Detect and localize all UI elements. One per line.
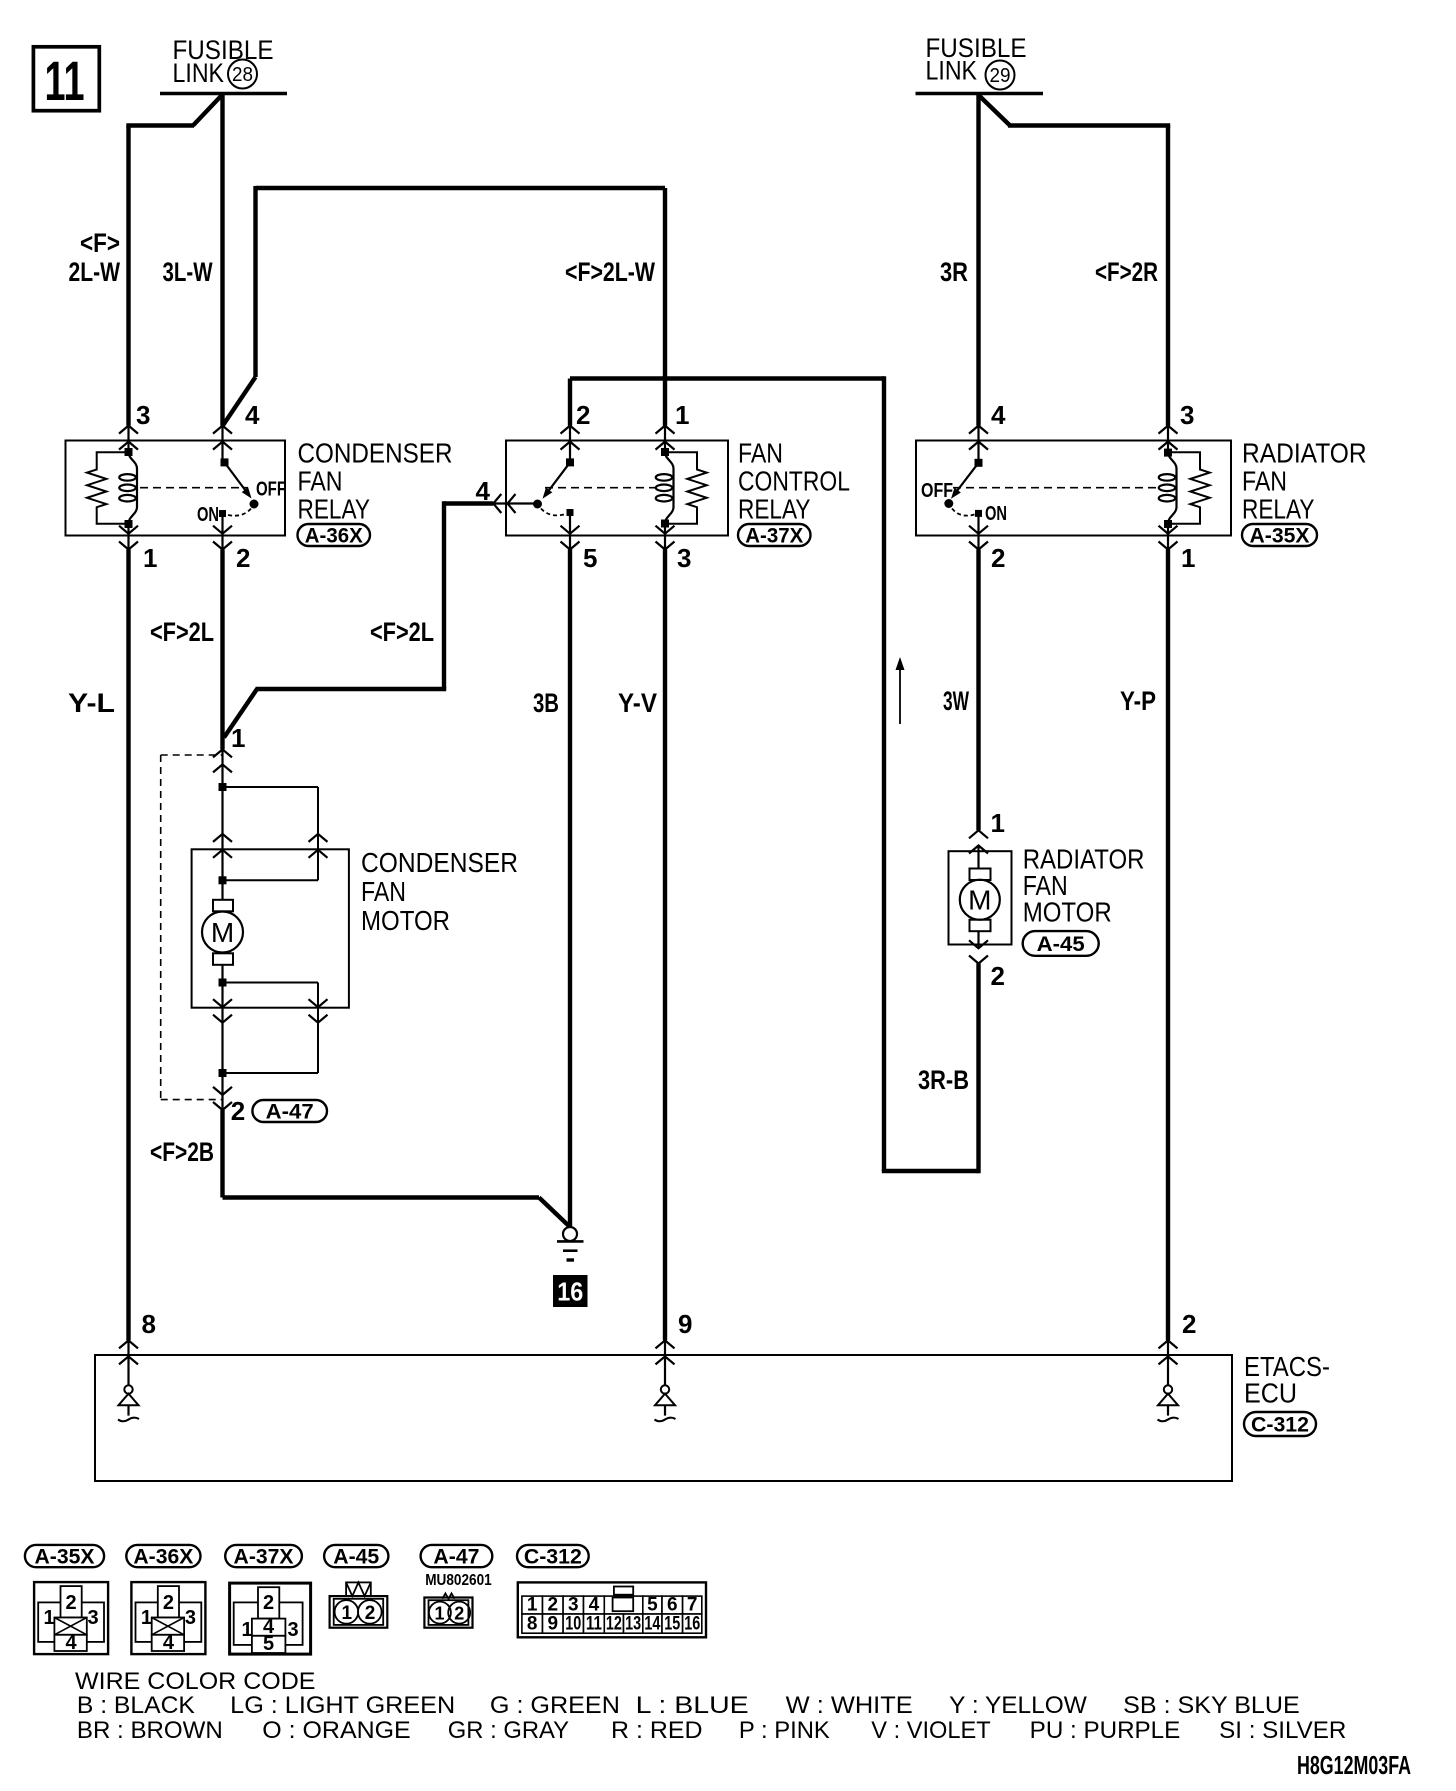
svg-text:<F>2L: <F>2L (150, 617, 214, 647)
svg-text:3: 3 (1180, 400, 1194, 430)
svg-text:2: 2 (1182, 1309, 1196, 1339)
A-35X pin numbers (991, 400, 1195, 573)
svg-text:8: 8 (527, 1614, 538, 1635)
svg-text:13: 13 (625, 1614, 641, 1635)
condenser motor bottom parallel branch (219, 979, 319, 1078)
svg-text:GR : GRAY: GR : GRAY (448, 1717, 569, 1744)
legend ref A-37X (225, 1545, 302, 1567)
ETACS pin 2 connector (1159, 1340, 1178, 1385)
svg-text:R : RED: R : RED (611, 1717, 703, 1744)
svg-text:OFF: OFF (921, 480, 953, 502)
A-35X pin 4 connector (969, 426, 988, 463)
svg-text:1: 1 (143, 543, 157, 573)
A-35X pin 1 connector (1159, 524, 1178, 550)
svg-text:B : BLACK: B : BLACK (77, 1692, 195, 1719)
svg-text:A-36X: A-36X (133, 1546, 193, 1569)
A-37X pin 3 connector (656, 524, 675, 550)
svg-text:A-45: A-45 (333, 1546, 379, 1569)
svg-text:SI : SILVER: SI : SILVER (1219, 1717, 1346, 1744)
svg-text:4: 4 (476, 476, 491, 506)
svg-text:Y-L: Y-L (68, 688, 115, 718)
A-37X pin 2 connector (561, 426, 580, 463)
svg-text:4: 4 (163, 1632, 175, 1654)
connector ref C-312 (1244, 1412, 1316, 1436)
svg-text:FAN: FAN (738, 438, 783, 469)
svg-text:RELAY: RELAY (1242, 494, 1315, 525)
svg-text:9: 9 (548, 1614, 559, 1635)
wire <F>2L-W: A-36X pin 4 to A-37X pin 1 via top run (223, 186, 666, 426)
svg-text:9: 9 (678, 1309, 692, 1339)
legend ref A-45 (324, 1545, 388, 1567)
legend connector diagram A-37X (230, 1583, 311, 1655)
svg-text:O : ORANGE: O : ORANGE (262, 1717, 410, 1744)
svg-text:1: 1 (991, 808, 1005, 838)
fusible link 29 label (926, 33, 1027, 90)
wire color code row 1 (77, 1692, 1300, 1719)
svg-text:A-47: A-47 (433, 1546, 479, 1569)
condenser motor box exit chevrons (213, 999, 328, 1023)
svg-text:1: 1 (141, 1607, 152, 1629)
ETACS pin 9 connector (656, 1340, 675, 1385)
legend connector diagram A-45 (330, 1582, 388, 1627)
A-37X dashed actuation line (545, 487, 655, 489)
svg-text:3: 3 (677, 543, 691, 573)
condenser motor top parallel branch (219, 783, 319, 884)
A-35X pin 3 connector (1159, 426, 1178, 453)
wire 3W: A-35X pin 2 down to radiator motor pin 1 (976, 550, 980, 831)
A-47 pin 2 connector (213, 1073, 232, 1110)
condenser motor box (192, 849, 349, 1007)
svg-text:11: 11 (45, 49, 85, 112)
A-35X pin 2 connector (969, 516, 988, 550)
A-37X resistor (665, 452, 707, 524)
legend connector diagram A-36X (131, 1582, 205, 1654)
wire label <F> 2L-W (69, 228, 121, 287)
A-36X switch (221, 458, 259, 508)
svg-text:P : PINK: P : PINK (739, 1717, 830, 1744)
wire color code row 2 (77, 1717, 1346, 1744)
svg-text:Y : YELLOW: Y : YELLOW (949, 1692, 1087, 1719)
wire <F>2R: fusible link 29 jog to A-35X pin 3 (980, 96, 1171, 426)
svg-text:WIRE COLOR CODE: WIRE COLOR CODE (75, 1668, 316, 1695)
svg-text:C-312: C-312 (1251, 1414, 1309, 1437)
svg-text:FAN: FAN (1242, 466, 1287, 497)
svg-text:FAN: FAN (298, 466, 343, 497)
A-37X ON contact (541, 509, 574, 517)
svg-text:BR : BROWN: BR : BROWN (77, 1717, 223, 1744)
svg-text:3R: 3R (940, 257, 968, 287)
svg-text:1: 1 (1181, 543, 1195, 573)
radiator motor symbol M (960, 869, 1000, 949)
svg-text:2: 2 (231, 1096, 245, 1126)
label RADIATOR FAN RELAY (1242, 438, 1367, 525)
svg-text:V : VIOLET: V : VIOLET (871, 1717, 991, 1744)
svg-text:MOTOR: MOTOR (1023, 897, 1112, 928)
svg-text:28: 28 (232, 64, 253, 86)
page number box 11 (33, 47, 99, 112)
svg-text:RADIATOR: RADIATOR (1242, 438, 1367, 469)
svg-text:A-47: A-47 (266, 1101, 314, 1124)
A-35X coil junction dots (1164, 449, 1172, 457)
svg-text:1: 1 (675, 400, 689, 430)
svg-text:3: 3 (88, 1607, 99, 1629)
wire <F>2L: A-36X pin 2 down to condenser fan motor pin 1 (220, 550, 224, 750)
condenser motor box entry chevrons (213, 834, 328, 858)
wire: A-37X pin 2 up and over to radiator motor return (570, 376, 979, 1171)
A-36X coil junction dots (125, 448, 133, 456)
svg-text:<F>2L: <F>2L (370, 617, 434, 647)
svg-text:1: 1 (342, 1603, 353, 1624)
svg-text:RELAY: RELAY (298, 494, 371, 525)
A-47 pin 1 connector (213, 749, 232, 787)
svg-text:10: 10 (565, 1614, 581, 1635)
A-36X pin 3 connector (119, 426, 138, 452)
svg-text:W : WHITE: W : WHITE (786, 1692, 913, 1719)
fusible link 28 label (173, 35, 274, 88)
ETACS internal ground symbol 9 (655, 1385, 676, 1421)
ground symbol (557, 1227, 584, 1260)
svg-text:SB : SKY BLUE: SB : SKY BLUE (1123, 1692, 1300, 1719)
wire Y-L: A-36X pin 1 down to ETACS-ECU pin 8 (126, 550, 130, 1341)
svg-text:C-312: C-312 (524, 1546, 582, 1569)
legend connector diagram A-47 (424, 1593, 472, 1627)
svg-text:5: 5 (583, 543, 597, 573)
wire 3B: A-37X pin 5 down to ground (568, 550, 572, 1228)
svg-text:A-36X: A-36X (305, 525, 363, 548)
condenser motor symbol M (202, 880, 243, 982)
connector ref A-36X (298, 524, 371, 546)
A-35X ON contact (952, 509, 982, 517)
relay A-35X box (916, 441, 1231, 536)
svg-text:H8G12M03FA: H8G12M03FA (1297, 1750, 1411, 1780)
svg-text:3R-B: 3R-B (918, 1065, 969, 1095)
fusible link 29 bar (916, 92, 1044, 95)
svg-text:15: 15 (664, 1614, 680, 1635)
direction arrow on wire (896, 657, 905, 724)
svg-text:A-35X: A-35X (35, 1546, 95, 1569)
svg-text:3: 3 (185, 1607, 196, 1629)
svg-text:2: 2 (163, 1592, 174, 1614)
svg-text:3: 3 (287, 1619, 298, 1641)
A-36X pin 4 connector (213, 426, 232, 463)
svg-text:3B: 3B (533, 688, 559, 718)
A-36X resistor (87, 452, 129, 524)
svg-text:<F>2R: <F>2R (1095, 257, 1158, 287)
A-35X switch (944, 459, 982, 508)
svg-text:A-35X: A-35X (1250, 525, 1310, 548)
label CONDENSER FAN MOTOR (361, 847, 518, 936)
svg-text:LG : LIGHT GREEN: LG : LIGHT GREEN (230, 1692, 455, 1719)
A-35X coil (1168, 452, 1177, 523)
svg-text:Y-P: Y-P (1120, 686, 1156, 716)
A-37X pin numbers (476, 400, 692, 573)
svg-text:ON: ON (197, 504, 219, 526)
svg-text:ON: ON (985, 503, 1007, 525)
svg-text:11: 11 (586, 1614, 602, 1635)
A-37X pin 5 connector (561, 516, 580, 550)
svg-text:LINK: LINK (926, 56, 978, 86)
A-37X coil junction dots (661, 448, 669, 456)
svg-text:CONDENSER: CONDENSER (361, 847, 518, 878)
svg-text:2: 2 (263, 1592, 274, 1614)
svg-text:CONDENSER: CONDENSER (298, 438, 453, 469)
wire Y-P: A-35X pin 1 down to ETACS-ECU pin 2 (1166, 550, 1170, 1341)
svg-text:Y-V: Y-V (618, 688, 657, 718)
svg-text:4: 4 (66, 1632, 78, 1654)
A-36X ON contact (219, 508, 252, 517)
A-35X resistor (1168, 452, 1210, 524)
A-36X pin 1 connector (119, 524, 138, 550)
connector ref A-47 inline (252, 1100, 327, 1122)
label FAN CONTROL RELAY (738, 438, 850, 525)
svg-text:1: 1 (44, 1607, 55, 1629)
svg-text:3W: 3W (943, 686, 969, 716)
relay A-37X box (506, 441, 728, 536)
wire <F>2L-W: fusible link 28 jog to A-36X pin 3 (126, 96, 221, 426)
A-37X coil (665, 452, 674, 523)
ETACS internal ground symbol 8 (118, 1385, 139, 1421)
ETACS-ECU box (95, 1355, 1232, 1481)
wire <F>2L: A-37X pin 4 to condenser fan motor junction (224, 501, 493, 737)
svg-text:1: 1 (231, 723, 245, 753)
svg-text:8: 8 (142, 1309, 156, 1339)
svg-text:M: M (211, 917, 234, 948)
A-36X dashed actuation line (140, 487, 248, 489)
legend ref A-47 (421, 1545, 493, 1567)
svg-text:<F>2L-W: <F>2L-W (565, 257, 655, 287)
legend ref A-36X (126, 1545, 200, 1567)
svg-text:A-37X: A-37X (234, 1546, 294, 1569)
svg-text:2L-W: 2L-W (69, 257, 121, 287)
svg-text:G : GREEN: G : GREEN (490, 1692, 620, 1719)
svg-text:12: 12 (606, 1614, 622, 1635)
ETACS internal ground symbol 2 (1158, 1385, 1179, 1421)
svg-text:OFF: OFF (256, 479, 286, 501)
A-36X pin numbers (136, 400, 260, 573)
svg-text:4: 4 (245, 400, 260, 430)
svg-text:RELAY: RELAY (738, 494, 811, 525)
label CONDENSER FAN RELAY (298, 438, 453, 525)
A-37X pin 4 connector (493, 494, 535, 513)
svg-text:2: 2 (66, 1592, 77, 1614)
A-37X pin 1 connector (656, 426, 675, 452)
svg-text:16: 16 (684, 1614, 700, 1635)
svg-text:1: 1 (241, 1619, 252, 1641)
A-35X dashed actuation line (953, 487, 1157, 489)
svg-text:CONTROL: CONTROL (738, 466, 850, 497)
label RADIATOR FAN MOTOR (1023, 843, 1145, 927)
legend connector diagram A-35X (34, 1582, 108, 1654)
svg-text:2: 2 (991, 543, 1005, 573)
svg-text:2: 2 (991, 961, 1005, 991)
svg-text:LINK: LINK (173, 58, 225, 88)
svg-text:PU : PURPLE: PU : PURPLE (1030, 1717, 1181, 1744)
svg-text:FAN: FAN (361, 876, 406, 907)
svg-text:29: 29 (990, 65, 1011, 87)
legend ref C-312 (517, 1545, 589, 1567)
connector ref A-37X (738, 524, 811, 546)
connector ref A-35X (1242, 524, 1317, 546)
svg-text:<F>: <F> (80, 228, 120, 258)
svg-text:3L-W: 3L-W (163, 257, 213, 287)
wire 3R-B: radiator motor pin 2 down (976, 964, 980, 1174)
svg-text:4: 4 (991, 400, 1006, 430)
A-47 dashed connector outline (161, 755, 223, 1100)
wire 3L-W: fusible link 28 down to A-36X pin 4 (220, 94, 224, 426)
svg-text:16: 16 (557, 1277, 583, 1307)
ETACS pin 8 connector (119, 1340, 138, 1385)
wire Y-V: A-37X pin 3 down to ETACS-ECU pin 9 (663, 550, 667, 1341)
radiator motor pin 1 connector (969, 830, 988, 868)
svg-text:2: 2 (365, 1603, 376, 1624)
radiator motor pin 2 connector (969, 940, 988, 963)
svg-text:3: 3 (136, 400, 150, 430)
wire 3R: fusible link 29 down to A-35X pin 4 (976, 94, 980, 426)
legend ref A-35X (25, 1545, 104, 1567)
svg-text:M: M (968, 885, 991, 916)
svg-text:2: 2 (454, 1604, 464, 1624)
label ETACS-ECU (1244, 1351, 1330, 1409)
wire <F>2B: condenser motor pin 2 to ground (223, 1110, 571, 1227)
svg-text:MOTOR: MOTOR (361, 905, 450, 936)
radiator motor box (949, 851, 1012, 944)
svg-text:MU802601: MU802601 (425, 1572, 492, 1589)
A-36X coil (129, 452, 138, 523)
svg-text:A-45: A-45 (1037, 933, 1085, 956)
svg-text:2: 2 (576, 400, 590, 430)
svg-text:5: 5 (263, 1633, 274, 1655)
relay A-36X box (66, 441, 286, 536)
A-37X switch (533, 458, 574, 508)
svg-text:14: 14 (644, 1614, 660, 1635)
fusible link 28 bar (160, 92, 287, 95)
svg-text:ECU: ECU (1244, 1378, 1297, 1409)
svg-text:A-37X: A-37X (745, 525, 803, 548)
connector ref A-45 (1023, 931, 1099, 956)
A-36X pin 2 connector (213, 517, 232, 550)
svg-text:2: 2 (236, 543, 250, 573)
legend connector diagram C-312 (518, 1582, 706, 1637)
svg-text:1: 1 (434, 1604, 444, 1624)
svg-text:L : BLUE: L : BLUE (636, 1692, 749, 1719)
ground ref 16 (553, 1275, 588, 1307)
svg-text:<F>2B: <F>2B (150, 1137, 214, 1167)
